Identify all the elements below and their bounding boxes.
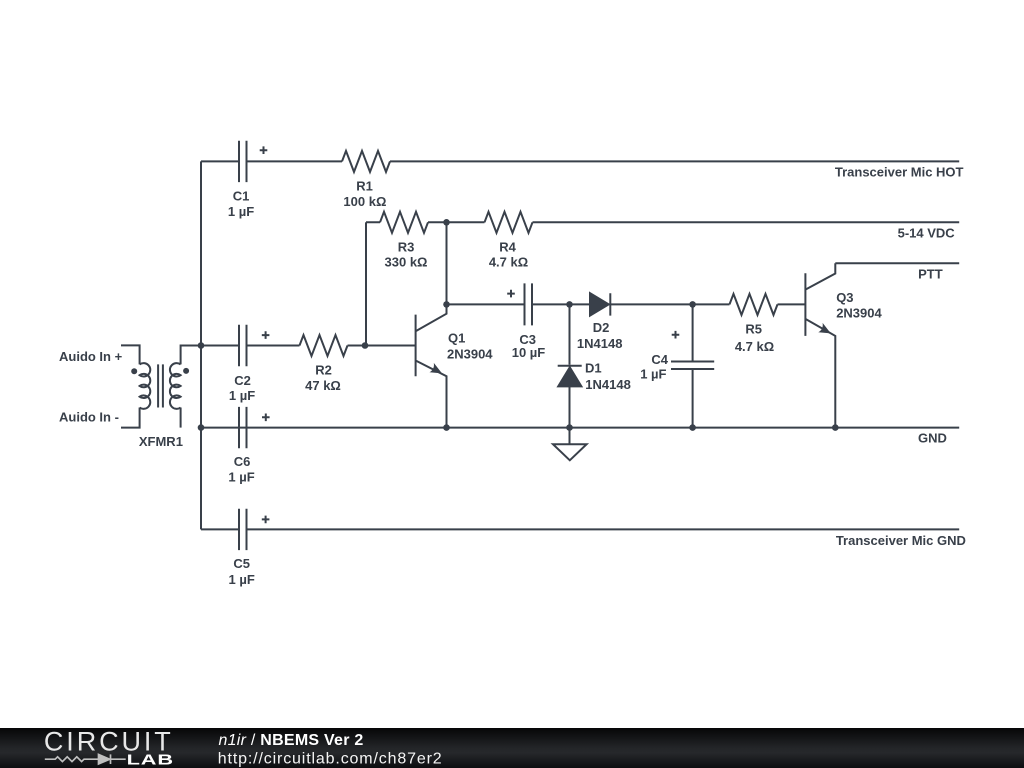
wire: D1 branch vertical	[569, 304, 571, 427]
svg-text:10 µF: 10 µF	[512, 345, 546, 360]
svg-text:Q3: Q3	[836, 290, 853, 305]
svg-text:4.7 kΩ: 4.7 kΩ	[489, 255, 528, 270]
svg-text:2N3904: 2N3904	[836, 306, 882, 321]
wire: Auido In - stub	[121, 408, 140, 428]
transistor Q1 emitter arrow	[430, 363, 443, 374]
wire: Transceiver Mic HOT rail	[201, 160, 959, 162]
wire: Auido In + stub	[121, 345, 140, 364]
svg-text:R1: R1	[356, 179, 373, 194]
polarity plus C4	[672, 331, 680, 339]
svg-text:GND: GND	[918, 431, 947, 446]
capacitor C3	[525, 283, 533, 325]
node: C1/C2 bus junction	[198, 342, 205, 349]
capacitor C2	[239, 325, 247, 366]
resistor R5	[730, 294, 778, 315]
svg-text:D2: D2	[593, 320, 610, 335]
wire: base row (R2 to Q1)	[201, 345, 416, 347]
polarity plus C6	[262, 414, 270, 422]
svg-text:1 µF: 1 µF	[640, 367, 666, 382]
svg-text:XFMR1: XFMR1	[139, 434, 183, 449]
capacitor C6	[239, 407, 247, 448]
svg-text:330 kΩ: 330 kΩ	[385, 255, 428, 270]
wire: secondary bottom lead	[180, 408, 182, 428]
resistor R3	[380, 212, 428, 233]
wire: left vertical bus	[200, 161, 202, 529]
node: Q1 emitter / GND junction	[443, 424, 450, 431]
wire: secondary top lead	[181, 346, 201, 365]
svg-text:C4: C4	[651, 352, 668, 367]
node: Q3 emitter / GND junction	[832, 424, 839, 431]
node: R3 drop / base row junction	[362, 342, 369, 349]
svg-text:R3: R3	[398, 239, 415, 254]
node: D1/D2 junction	[566, 301, 573, 308]
resistor R4	[485, 212, 533, 233]
transistor Q3	[805, 263, 835, 427]
svg-text:1N4148: 1N4148	[585, 377, 631, 392]
diode D2	[590, 293, 610, 315]
transformer phase dot left	[131, 368, 137, 374]
svg-text:1 µF: 1 µF	[229, 388, 255, 403]
transistor Q1	[416, 304, 447, 427]
svg-text:2N3904: 2N3904	[447, 347, 493, 362]
polarity plus C2	[262, 331, 270, 339]
ground symbol	[553, 428, 587, 461]
node: bus/GND junction	[198, 424, 205, 431]
logo resistor-diode glyph	[45, 754, 126, 764]
svg-text:Auido In -: Auido In -	[59, 410, 119, 425]
wire: collector node row	[447, 303, 806, 305]
diode D1	[558, 366, 582, 387]
node: Q1 collector junction	[443, 301, 450, 308]
svg-text:Auido In +: Auido In +	[59, 349, 123, 364]
svg-text:5-14 VDC: 5-14 VDC	[898, 225, 956, 240]
svg-text:R5: R5	[745, 322, 762, 337]
svg-text:PTT: PTT	[918, 266, 943, 281]
transformer phase dot right	[183, 368, 189, 374]
transistor Q3 emitter arrow	[818, 323, 831, 334]
wire: R3/R4 node drop to Q1 collector	[446, 222, 448, 304]
svg-text:C5: C5	[233, 556, 250, 571]
svg-text:1N4148: 1N4148	[577, 336, 623, 351]
svg-text:LAB: LAB	[127, 751, 174, 768]
wire: Transceiver Mic GND rail	[201, 528, 959, 530]
svg-text:1 µF: 1 µF	[228, 470, 254, 485]
svg-text:Transceiver Mic HOT: Transceiver Mic HOT	[835, 164, 964, 179]
capacitor C5	[239, 509, 247, 550]
svg-text:Transceiver Mic GND: Transceiver Mic GND	[836, 533, 966, 548]
svg-text:D1: D1	[585, 360, 602, 375]
transformer XFMR1 secondary coil	[170, 363, 181, 409]
logo LAB text	[127, 751, 174, 768]
node: D1 / GND junction	[566, 424, 573, 431]
svg-text:C2: C2	[234, 373, 251, 388]
resistor R1	[342, 151, 390, 172]
node: C4 / GND junction	[689, 424, 696, 431]
svg-text:1 µF: 1 µF	[229, 572, 255, 587]
svg-text:C1: C1	[233, 189, 250, 204]
svg-text:R2: R2	[315, 363, 332, 378]
svg-text:Q1: Q1	[448, 331, 465, 346]
resistor R2	[300, 335, 348, 356]
transformer XFMR1 primary coil	[140, 363, 151, 409]
svg-text:http://circuitlab.com/ch87er2: http://circuitlab.com/ch87er2	[218, 750, 443, 767]
polarity plus C1	[260, 146, 268, 154]
svg-text:47 kΩ: 47 kΩ	[305, 378, 341, 393]
wire: GND rail	[201, 427, 959, 429]
node: C4 top junction	[689, 301, 696, 308]
svg-text:C6: C6	[234, 454, 251, 469]
wire: R3 left drop to base row	[365, 222, 367, 345]
capacitor C1	[239, 141, 247, 182]
wire: PTT rail	[835, 262, 959, 264]
svg-text:1 µF: 1 µF	[228, 204, 254, 219]
svg-text:4.7 kΩ: 4.7 kΩ	[735, 339, 774, 354]
node: R3/R4 junction	[443, 219, 450, 226]
wire: 5-14 VDC rail	[366, 221, 959, 223]
svg-text:R4: R4	[499, 239, 516, 254]
svg-text:100 kΩ: 100 kΩ	[343, 194, 386, 209]
polarity plus C5	[262, 516, 270, 524]
polarity plus C3	[507, 290, 515, 298]
capacitor C4	[671, 304, 714, 427]
transformer XFMR1 core	[158, 364, 163, 407]
svg-text:n1ir / NBEMS Ver 2: n1ir / NBEMS Ver 2	[219, 732, 364, 749]
